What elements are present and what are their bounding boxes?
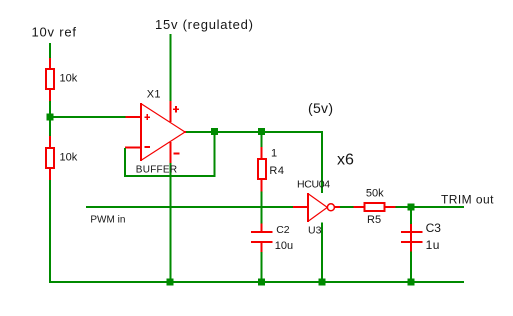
wire 5v vertical upper [321, 131, 323, 193]
resistor 10k lower pin bottom [49, 169, 51, 180]
resistor R5 body [365, 203, 385, 211]
svg-text:C2: C2 [276, 224, 290, 236]
inverter U3 bottom edge [308, 207, 327, 221]
wire feedback left vertical [124, 148, 126, 177]
svg-text:X1: X1 [147, 88, 161, 100]
capacitor C3 middle stem [410, 233, 412, 241]
wire left rail down [49, 180, 51, 283]
capacitor C2 pin top [261, 224, 263, 232]
inverter U3 top edge [308, 194, 327, 208]
node 10v ref wire stub [49, 43, 51, 58]
svg-text:R5: R5 [367, 214, 381, 226]
junction ground at C2 [258, 279, 265, 286]
inverter U3 output pin [335, 206, 341, 208]
svg-text:10k: 10k [60, 73, 78, 85]
op-amp X1 +input pin [126, 116, 141, 118]
wire bottom ground rail [50, 281, 464, 283]
capacitor C3 bottom plate [401, 241, 423, 243]
junction TRIM node [408, 204, 415, 211]
svg-text:BUFFER: BUFFER [136, 165, 178, 176]
capacitor C2 bottom plate [251, 241, 273, 243]
junction ground at C3 [408, 279, 415, 286]
wire R4 to C2 [261, 192, 263, 224]
op-amp X1 V- supply pin [170, 142, 172, 163]
capacitor C3 pin bottom [410, 243, 412, 252]
resistor 10k upper pin top [49, 58, 51, 68]
resistor 10k lower body [46, 148, 54, 168]
wire PWM in net [86, 206, 293, 208]
wire C3 to ground rail [410, 252, 412, 283]
svg-text:10v ref: 10v ref [32, 25, 77, 40]
svg-text:TRIM out: TRIM out [441, 192, 494, 206]
wire noninverting input net [51, 116, 126, 118]
capacitor C3 pin top [410, 224, 412, 231]
resistor R5 pin left [354, 206, 364, 208]
wire op-amp output 5v net [186, 131, 322, 133]
junction feedback node [211, 128, 218, 135]
svg-text:HCU04: HCU04 [297, 178, 330, 190]
wire supply rail to ground [170, 163, 172, 283]
resistor R4 pin top [261, 147, 263, 158]
svg-text:10u: 10u [275, 240, 293, 252]
svg-text:R4: R4 [269, 165, 284, 177]
op-amp X1 left edge [140, 103, 142, 161]
svg-text:50k: 50k [366, 188, 384, 200]
wire 10k to junction [49, 101, 51, 114]
op-amp X1 -input pin [125, 146, 141, 148]
resistor R5 pin right [386, 206, 396, 208]
resistor R4 pin bottom [261, 180, 263, 192]
wire junction to 10k bottom [49, 121, 51, 137]
wire junction2 to R4 [261, 134, 263, 147]
junction ground at supply rail [167, 279, 174, 286]
wire feedback right vertical [214, 133, 216, 177]
junction R4 top node [258, 128, 265, 135]
svg-text:(5v): (5v) [308, 100, 333, 116]
svg-text:PWM in: PWM in [90, 215, 125, 226]
inverter U3 output bubble [327, 204, 334, 211]
svg-text:U3: U3 [308, 224, 322, 236]
wire R5 to trim node [396, 206, 409, 208]
op-amp X1 minus supply symbol [174, 152, 180, 154]
wire feedback bottom horizontal [124, 175, 216, 177]
capacitor C3 top plate [401, 231, 423, 233]
resistor R4 body [258, 159, 266, 179]
op-amp X1 V+ supply pin [170, 101, 172, 122]
wire C2 to ground rail [261, 252, 263, 282]
svg-text:x6: x6 [337, 152, 354, 169]
op-amp X1 plus input symbol [146, 114, 148, 120]
svg-text:10k: 10k [60, 152, 78, 164]
inverter U3 input pin [293, 206, 308, 208]
op-amp X1 minus input symbol [145, 146, 150, 148]
capacitor C2 top plate [251, 231, 273, 233]
svg-text:1u: 1u [426, 238, 440, 252]
svg-text:C3: C3 [426, 221, 442, 235]
capacitor C2 pin bottom [261, 243, 263, 252]
op-amp X1 plus supply symbol [175, 106, 177, 113]
svg-text:1: 1 [271, 148, 277, 160]
wire inverter output to R5 [340, 206, 354, 208]
op-amp X1 top edge [141, 104, 185, 132]
op-amp X1 bottom edge [141, 132, 185, 160]
op-amp X1 output pin tip [185, 131, 187, 133]
inverter U3 left edge [307, 193, 309, 222]
svg-text:15v (regulated): 15v (regulated) [155, 17, 254, 32]
junction left divider node [47, 114, 54, 121]
wire 15v supply vertical [170, 34, 172, 101]
junction ground at inverter rail [319, 279, 326, 286]
wire trim node down to C3 [410, 210, 412, 224]
resistor 10k upper body [46, 69, 54, 89]
resistor 10k upper pin bottom [49, 90, 51, 101]
wire 5v vertical lower to ground [321, 223, 323, 284]
wire TRIM out net [415, 206, 465, 208]
resistor 10k lower pin top [49, 136, 51, 147]
